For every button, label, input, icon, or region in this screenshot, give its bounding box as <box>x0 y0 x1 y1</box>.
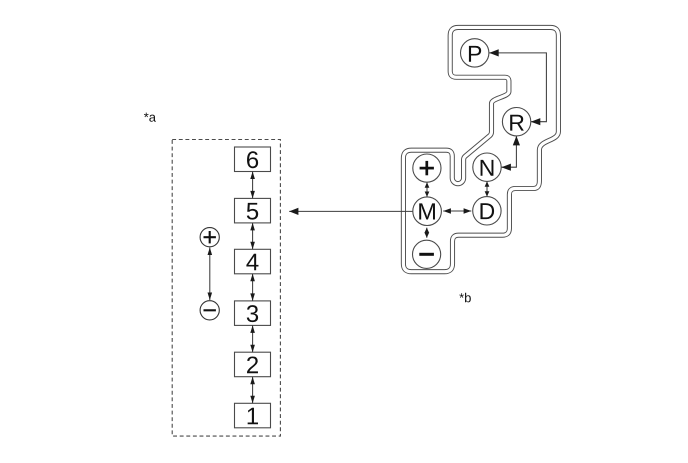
circle P <box>461 39 489 67</box>
box 4 <box>235 249 271 273</box>
arrow R to P <box>489 53 546 122</box>
circle minus (panel) <box>200 301 219 320</box>
box 5 <box>235 198 271 223</box>
label *a <box>144 113 156 122</box>
circle D <box>473 197 501 225</box>
circle N <box>473 153 501 181</box>
shift gate outline <box>403 27 558 271</box>
dashed frame *a <box>172 140 280 437</box>
arrow 2-1 <box>252 377 254 404</box>
box 3 <box>235 301 271 326</box>
box 6 <box>235 147 271 172</box>
circle R <box>502 108 530 136</box>
arrow plus-minus (panel) <box>209 248 211 301</box>
circle M <box>413 197 442 226</box>
arrow plus-M (gate) <box>426 182 428 197</box>
label *b <box>459 293 471 303</box>
box 2 <box>235 352 271 377</box>
arrow M-D (gate) <box>443 210 471 212</box>
arrow 6-5 <box>252 172 254 199</box>
box 1 <box>235 403 271 428</box>
arrow M to frame <box>289 210 413 212</box>
arrow M-minus (gate) <box>426 228 428 238</box>
circle plus (panel) <box>200 228 219 247</box>
arrow 5-4 <box>252 223 254 249</box>
arrow N-D (gate) <box>486 181 488 196</box>
arrow 4-3 <box>252 274 254 301</box>
circle plus (gate) <box>413 154 441 182</box>
circle minus (gate) <box>413 240 441 268</box>
arrow N to R <box>501 136 516 167</box>
arrow 3-2 <box>252 325 254 352</box>
